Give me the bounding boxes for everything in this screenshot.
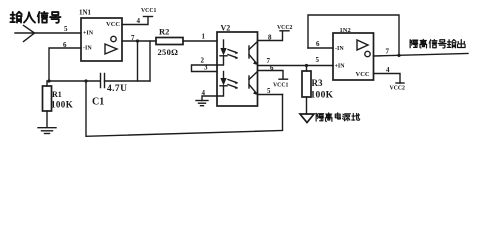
入	[24, 12, 35, 22]
wire feedback loop left	[137, 41, 139, 81]
svg-text:4: 4	[137, 17, 141, 25]
svg-text:6: 6	[270, 64, 274, 72]
wire -IN to 1N1	[49, 48, 81, 81]
svg-text:C1: C1	[92, 97, 104, 108]
svg-text:100K: 100K	[51, 100, 73, 110]
svg-text:5: 5	[267, 87, 271, 95]
svg-text:+IN: +IN	[335, 64, 346, 70]
svg-text:8: 8	[268, 34, 272, 42]
light arrows bottom	[228, 80, 237, 88]
输	[10, 12, 21, 23]
LED D1 (top channel)	[223, 40, 225, 48]
1N2 triangle	[357, 40, 368, 50]
svg-text:4: 4	[386, 66, 390, 74]
svg-text:6: 6	[63, 41, 67, 49]
power VCC1 symbol (inverted)	[279, 78, 288, 80]
svg-text:-IN: -IN	[83, 46, 92, 52]
wire bottom rail (feedback from V2 pin5)	[86, 81, 283, 136]
resistor R1	[46, 81, 48, 127]
label 输入信号 (input signal)	[10, 12, 60, 23]
svg-text:R2: R2	[159, 27, 169, 37]
svg-text:1N2: 1N2	[340, 27, 351, 34]
ground (input side)	[38, 127, 56, 129]
wire 1N2 -IN pin6	[308, 47, 333, 49]
wire 1N2 pin4 to VCC2	[374, 74, 401, 84]
svg-text:VCC: VCC	[356, 71, 370, 78]
svg-text:VCC: VCC	[106, 21, 120, 28]
svg-text:4.7U: 4.7U	[107, 84, 127, 94]
junction bottom-rail node	[84, 79, 87, 82]
信	[429, 40, 437, 48]
op-amp U2 (1N2) box	[333, 33, 374, 80]
号	[50, 12, 61, 23]
svg-text:VCC1: VCC1	[141, 8, 157, 14]
1N1 output circle	[111, 36, 116, 41]
phototransistor Q2 (bottom)	[248, 76, 250, 88]
wire feedback loop right	[149, 41, 151, 81]
junction output node	[136, 39, 139, 42]
svg-text:7: 7	[131, 34, 135, 42]
resistor R2	[156, 38, 183, 45]
op-amp U1 (1N1) box	[81, 18, 122, 61]
出	[457, 40, 465, 48]
wire V2 pin6 to VCC1	[258, 71, 284, 79]
svg-text:-IN: -IN	[335, 46, 344, 52]
svg-text:1: 1	[202, 33, 206, 41]
optocoupler V2 box	[217, 32, 258, 106]
wire R2 to V2 pin1	[183, 40, 217, 42]
svg-text:VCC1: VCC1	[273, 83, 289, 89]
junction output/feedback node	[397, 54, 400, 57]
svg-text:VCC2: VCC2	[277, 25, 293, 31]
离	[420, 39, 427, 48]
svg-text:3: 3	[204, 64, 208, 72]
phototransistor Q1 (top)	[248, 46, 250, 58]
svg-text:+IN: +IN	[83, 31, 94, 37]
light arrows top	[228, 50, 237, 58]
svg-text:5: 5	[64, 25, 68, 33]
电	[335, 113, 340, 119]
wire V2 pin8 to VCC2	[258, 32, 283, 41]
信	[38, 12, 48, 23]
svg-text:1N1: 1N1	[79, 9, 92, 17]
svg-text:V2: V2	[221, 24, 231, 33]
地	[352, 113, 360, 120]
svg-text:4: 4	[202, 89, 206, 97]
svg-text:R1: R1	[52, 90, 62, 99]
输	[447, 40, 456, 48]
wire V2 pin4 to ground	[202, 96, 217, 101]
离	[325, 113, 332, 121]
wire 1N1 output pin7	[122, 40, 156, 42]
wire 1N2 output	[374, 54, 469, 57]
input arrow	[15, 32, 81, 34]
wire feedback 1N2 output to -IN	[308, 15, 399, 56]
power VCC2 symbol (bottom right)	[396, 82, 404, 84]
号	[438, 40, 446, 48]
1N1 triangle	[105, 44, 117, 54]
ground (V2 pin4)	[196, 100, 208, 102]
1N2 output circle	[365, 51, 370, 56]
junction +IN / R3 node	[305, 64, 308, 67]
ground 隔离电源地 (isolated power ground)	[300, 114, 314, 123]
隔	[410, 40, 418, 48]
隔	[316, 113, 324, 121]
resistor R3	[306, 66, 308, 115]
源	[343, 114, 351, 121]
svg-text:250Ω: 250Ω	[158, 47, 179, 57]
wire V2 pin5 to bottom rail	[258, 94, 283, 96]
wire V2 pin7 to 1N2 +IN	[258, 65, 334, 67]
LED D2 (bottom channel)	[223, 72, 225, 79]
svg-text:R3: R3	[312, 78, 323, 88]
svg-text:6: 6	[316, 40, 320, 48]
wire -IN node to C1	[49, 80, 100, 82]
power VCC2 symbol (top)	[280, 30, 289, 32]
svg-text:5: 5	[316, 56, 320, 64]
capacitor C1	[101, 74, 105, 88]
wire 1N1 pin4 to VCC1	[122, 17, 148, 25]
svg-text:VCC2: VCC2	[390, 86, 406, 92]
svg-text:7: 7	[386, 48, 390, 56]
junction R1 node	[47, 79, 50, 82]
svg-text:100K: 100K	[311, 91, 334, 101]
power VCC1 symbol	[144, 16, 153, 18]
label 隔离信号输出 (isolated signal output)	[410, 39, 465, 48]
wire pins 2-3 loop	[192, 65, 218, 72]
